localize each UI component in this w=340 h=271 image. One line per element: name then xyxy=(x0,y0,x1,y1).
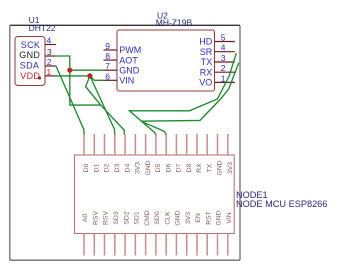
junction dot at GND vertical / U2 GND branch xyxy=(67,68,72,73)
wire RX: U2 pin2 to NODE1 D6 pin xyxy=(141,63,239,135)
svg-text:NODE MCU ESP8266: NODE MCU ESP8266 xyxy=(236,199,327,209)
pin stub RST xyxy=(206,234,208,256)
pin stub VIN xyxy=(227,234,229,256)
U2 pin 4 stub xyxy=(215,51,235,53)
svg-text:3V3: 3V3 xyxy=(227,162,234,174)
pin stub D7 xyxy=(175,134,177,155)
pin stub D2 xyxy=(104,134,106,155)
pin stub D6 xyxy=(165,134,167,155)
wire net1: U1 pin3 GND down and across to NODE1 D4 pin xyxy=(56,56,125,135)
frame top line xyxy=(10,24,240,26)
pin stub D5 xyxy=(155,134,157,155)
pin stub TX xyxy=(206,134,208,155)
U2 pin 7 stub xyxy=(104,69,118,71)
IC U2 MH-Z19B symbol box xyxy=(117,30,215,91)
svg-text:GND: GND xyxy=(217,160,224,175)
svg-text:MH-Z19B: MH-Z19B xyxy=(156,17,193,27)
svg-text:TX: TX xyxy=(201,57,213,67)
wire TX: U2 pin3 to NODE1 D5 pin xyxy=(129,53,236,134)
svg-text:8: 8 xyxy=(105,51,110,61)
frame bottom line xyxy=(10,259,240,261)
pin stub SD3 xyxy=(114,234,116,256)
svg-text:CMD: CMD xyxy=(144,210,151,226)
svg-text:RSV: RSV xyxy=(103,211,110,225)
pin stub D3 xyxy=(114,134,116,155)
svg-text:RSV: RSV xyxy=(93,211,100,225)
svg-text:3V3: 3V3 xyxy=(185,212,192,224)
pin stub 3V3c xyxy=(186,234,188,256)
svg-text:SD1: SD1 xyxy=(134,211,141,224)
pin stub GND3 xyxy=(175,234,177,256)
U1 pin 2 stub xyxy=(45,65,56,67)
svg-text:TX: TX xyxy=(206,163,213,172)
wire net1 branch to U2 pin7 xyxy=(70,69,104,71)
svg-text:GND: GND xyxy=(119,65,140,75)
svg-text:CLK: CLK xyxy=(164,211,171,225)
pin stub 3V3b xyxy=(227,134,229,155)
svg-text:VIN: VIN xyxy=(119,76,134,86)
U2 pin 3 stub xyxy=(215,61,235,63)
wire net2: U1 pin1 VDD horizontal xyxy=(55,75,90,77)
wire from junction to NODE1 D3 pin xyxy=(90,76,115,135)
pin stub SD0 xyxy=(155,234,157,256)
pin stub RX xyxy=(196,134,198,155)
svg-text:D0: D0 xyxy=(83,163,90,172)
svg-text:SD3: SD3 xyxy=(113,211,120,224)
svg-text:SR: SR xyxy=(200,47,213,57)
svg-text:D3: D3 xyxy=(114,163,121,172)
pin stub D4 xyxy=(124,134,126,155)
U2 pin 1 stub xyxy=(215,81,235,83)
svg-text:D1: D1 xyxy=(94,163,101,172)
svg-text:A0: A0 xyxy=(82,214,89,223)
svg-text:GND: GND xyxy=(175,210,182,225)
frame left line xyxy=(9,25,11,260)
pin stub RSV1 xyxy=(93,234,95,256)
U2 pin 2 stub xyxy=(215,71,235,73)
NODE1 bottom row pin labels xyxy=(82,210,233,226)
svg-text:HD: HD xyxy=(199,37,212,47)
svg-text:4: 4 xyxy=(47,36,52,46)
svg-text:D5: D5 xyxy=(155,163,162,172)
svg-text:SD0: SD0 xyxy=(154,211,161,224)
svg-text:D7: D7 xyxy=(176,163,183,172)
svg-text:EN: EN xyxy=(195,213,202,223)
svg-text:1: 1 xyxy=(47,67,52,77)
pin stub GND2 xyxy=(217,134,219,155)
svg-text:DHT22: DHT22 xyxy=(29,23,56,33)
U2 pin 6 stub xyxy=(104,79,118,81)
pin stub SD1 xyxy=(134,234,136,256)
pin stub A0 xyxy=(83,234,85,256)
U2 pin 5 stub xyxy=(215,41,235,43)
NODE1 top row pin labels xyxy=(83,160,234,175)
wire SDA: U1 pin2 to NODE1 D0 pin xyxy=(56,66,84,135)
NODE1 bottom pin stubs xyxy=(84,234,228,256)
pin stub D0 xyxy=(83,134,85,155)
svg-text:2: 2 xyxy=(221,63,226,73)
U1 pin 3 stub xyxy=(45,55,56,57)
frame right line xyxy=(239,25,241,260)
svg-text:7: 7 xyxy=(105,61,110,71)
wire net2 branch down joining net1 bend xyxy=(86,76,101,105)
svg-text:3: 3 xyxy=(221,53,226,63)
svg-text:D8: D8 xyxy=(186,163,193,172)
pin stub D1 xyxy=(93,134,95,155)
wire net2 branch to U2 pin6 VIN xyxy=(90,76,104,80)
svg-text:3V3: 3V3 xyxy=(135,162,142,174)
U2 pin 9 stub xyxy=(104,49,118,51)
svg-text:3: 3 xyxy=(47,47,52,57)
IC U1 DHT22 symbol box xyxy=(15,37,45,86)
svg-text:AOT: AOT xyxy=(119,55,138,65)
pin stub SD2 xyxy=(124,234,126,256)
pin stub CLK xyxy=(165,234,167,256)
pin stub GND4 xyxy=(217,234,219,256)
svg-text:6: 6 xyxy=(105,71,110,81)
svg-text:5: 5 xyxy=(221,33,226,43)
svg-text:D2: D2 xyxy=(104,163,111,172)
U1 VDD dot xyxy=(38,77,41,80)
U1 pin 4 stub xyxy=(45,44,56,46)
svg-text:SDA: SDA xyxy=(20,61,39,71)
svg-text:VDD: VDD xyxy=(20,71,40,81)
svg-text:GND: GND xyxy=(145,160,152,175)
svg-text:GND: GND xyxy=(19,50,40,60)
NODE1 top pin stubs xyxy=(84,134,228,155)
svg-text:SCK: SCK xyxy=(21,40,40,50)
pin stub GND xyxy=(145,134,147,155)
svg-text:VO: VO xyxy=(199,78,212,88)
svg-text:2: 2 xyxy=(47,57,52,67)
svg-text:4: 4 xyxy=(221,43,226,53)
svg-text:9: 9 xyxy=(105,41,110,51)
pin stub EN xyxy=(196,234,198,256)
junction dot at 3V3 horizontal branch xyxy=(87,73,92,78)
wires (green nets) xyxy=(55,53,239,134)
schematic frame border xyxy=(10,25,240,260)
pin stub D8 xyxy=(186,134,188,155)
svg-text:RST: RST xyxy=(205,211,212,225)
svg-text:VIN: VIN xyxy=(226,212,233,223)
svg-text:RX: RX xyxy=(196,163,203,173)
pin stub 3V3 xyxy=(134,134,136,155)
svg-text:D6: D6 xyxy=(165,163,172,172)
pin stub RSV2 xyxy=(104,234,106,256)
pin stub CMD xyxy=(145,234,147,256)
svg-text:SD2: SD2 xyxy=(123,211,130,224)
IC NODE1 NodeMCU ESP8266 symbol box xyxy=(75,155,235,234)
U1 pin 1 stub xyxy=(45,75,55,77)
svg-text:RX: RX xyxy=(200,67,213,77)
svg-text:GND: GND xyxy=(216,210,223,225)
svg-text:D4: D4 xyxy=(124,163,131,172)
U2 pin 8 stub xyxy=(104,59,118,61)
svg-text:PWM: PWM xyxy=(119,45,141,55)
svg-text:1: 1 xyxy=(221,73,226,83)
